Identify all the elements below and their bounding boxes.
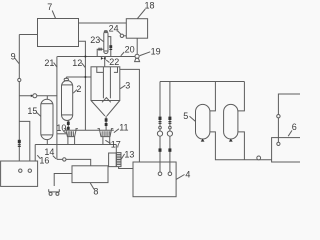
wire: header to right vessel 5 — [238, 82, 245, 111]
rotary valve (under vessel 2) — [64, 129, 78, 145]
svg-text:7: 7 — [47, 2, 52, 12]
discharge collector line of conveyor 17 — [66, 129, 114, 131]
valve 24 on box 18 left side — [120, 34, 126, 37]
box 6 — [272, 138, 301, 162]
label 18 — [137, 1, 154, 19]
svg-text:17: 17 — [111, 139, 121, 149]
heater element 13 — [116, 153, 121, 167]
svg-text:22: 22 — [109, 57, 119, 67]
label 9 — [11, 52, 20, 64]
svg-text:11: 11 — [119, 123, 128, 133]
svg-text:6: 6 — [292, 122, 297, 132]
wire: conveyor to box 8 — [57, 158, 91, 166]
svg-text:5: 5 — [183, 111, 188, 121]
wire: header to left vessel 5 — [210, 82, 216, 111]
rotary valve (under vessel 3) — [98, 129, 114, 145]
discharge chute under conveyor — [109, 153, 117, 167]
relief valve 19 — [135, 54, 140, 61]
box 4 (scrubber tank) — [133, 162, 176, 197]
box 18 — [126, 19, 147, 39]
header line over vessels 5 — [160, 81, 244, 83]
label 19 — [140, 47, 161, 57]
wire: line 9 to vessels 15/2 — [19, 95, 57, 97]
wire: left vessel 5 outlet to box 6 — [210, 132, 272, 160]
label 14 — [44, 147, 56, 159]
line 12 (vertical) from box 7 — [79, 41, 86, 130]
label 23 — [90, 35, 103, 45]
svg-text:10: 10 — [56, 123, 66, 133]
valve on that wire — [31, 94, 37, 98]
main gas line 20 — [57, 56, 135, 58]
vessel 23 right pipe with valve — [108, 37, 112, 57]
wire: box 8 to trolley — [54, 174, 72, 187]
box 16 (electrolyser) — [1, 161, 38, 186]
drop from vessel 15 — [46, 140, 48, 145]
valve on line 9 — [18, 78, 21, 81]
box 8 — [72, 166, 108, 183]
label 15 — [27, 106, 40, 117]
svg-text:21: 21 — [44, 58, 54, 68]
adsorber vessel 5 (left) — [196, 104, 210, 141]
svg-text:12: 12 — [72, 58, 82, 68]
condenser vessel 23 — [104, 31, 108, 54]
svg-text:23: 23 — [90, 35, 100, 45]
label 17 — [105, 139, 120, 149]
wire: element 13 to box 4 — [119, 167, 133, 169]
riser from discharge line into box 16 — [34, 145, 36, 162]
label 4 — [176, 170, 190, 180]
label 11 — [114, 123, 129, 133]
svg-text:8: 8 — [93, 187, 98, 197]
label 20 — [121, 45, 135, 56]
wire: right vessel 5 outlet — [238, 132, 245, 160]
svg-text:13: 13 — [124, 150, 134, 160]
label 5 — [183, 111, 195, 122]
vessel 3 centre feed tube — [102, 57, 111, 103]
label 10 — [56, 123, 66, 133]
label 13 — [121, 150, 134, 160]
label 16 — [37, 155, 49, 165]
dip line B into box 4 — [167, 82, 172, 176]
label 2 — [73, 84, 81, 94]
vessel 23 left pipe with valve — [97, 48, 103, 57]
label 21 — [44, 58, 57, 68]
valve ticks on line 9 — [18, 140, 21, 147]
label 8 — [90, 183, 98, 197]
reactor box 7 — [38, 19, 79, 47]
line 21 (vertical) — [57, 57, 67, 160]
svg-text:9: 9 — [11, 52, 16, 62]
bag filter vessel 3 — [91, 67, 120, 116]
wire: vessel 2 top to vessel 3 — [66, 56, 91, 79]
svg-text:4: 4 — [185, 170, 190, 180]
flanged drop from vessel 3 — [105, 116, 108, 130]
conveyor 17 bottom line — [35, 145, 116, 167]
label 12 — [72, 58, 85, 68]
vessel 3 internal baffle left — [97, 67, 104, 73]
label 3 — [120, 81, 130, 91]
svg-text:18: 18 — [145, 1, 155, 11]
product line from box 6 — [277, 94, 300, 145]
wire: box 18 down to relief valve 19 — [136, 38, 138, 54]
vessel 3 internal baffle right — [114, 67, 118, 73]
label 6 — [288, 122, 297, 136]
wire: box 7 to box 18 — [79, 22, 127, 24]
trolley — [49, 189, 60, 195]
label 7 — [47, 2, 55, 19]
vessel 15 (column) — [41, 96, 53, 140]
pump 22 on main line — [101, 57, 106, 60]
adsorber vessel 5 (right) — [224, 104, 238, 141]
vessel 2 (buffer tank) — [62, 77, 73, 121]
svg-text:3: 3 — [125, 81, 130, 91]
flanged drop from vessel 2 — [67, 121, 70, 131]
wire: vessel 3 outlet to box 4 — [120, 69, 140, 162]
branch from line 9 into box 16 — [19, 121, 30, 161]
svg-text:24: 24 — [109, 24, 119, 34]
label 22 — [106, 57, 119, 67]
dip line A into box 4 — [157, 82, 162, 176]
label 24 — [109, 24, 121, 35]
svg-text:15: 15 — [27, 106, 37, 116]
line 9 (vertical) with inlet to box 7 — [19, 35, 37, 162]
vent valve on outlet line — [257, 156, 261, 160]
svg-text:2: 2 — [76, 84, 81, 94]
svg-text:20: 20 — [125, 45, 135, 55]
svg-text:19: 19 — [151, 47, 161, 57]
